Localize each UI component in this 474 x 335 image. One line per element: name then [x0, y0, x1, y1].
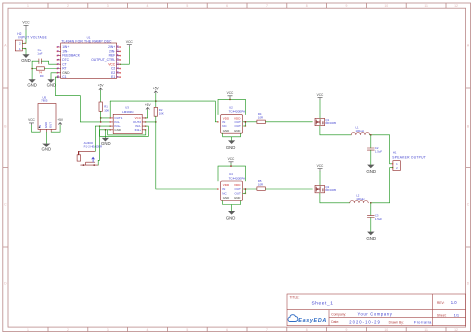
wire loop gnd to IN2+	[108, 130, 146, 135]
VCC flag (Q1)	[317, 93, 324, 100]
wire OUT1 riser to top rail	[109, 101, 111, 118]
wire junction down to C2	[370, 135, 372, 148]
svg-text:11: 11	[424, 328, 428, 332]
wire U3 gnd stem	[104, 130, 106, 138]
transistor Q1 IRF3205	[315, 118, 337, 126]
svg-text:VCC: VCC	[228, 157, 235, 161]
svg-text:Company:: Company:	[331, 313, 346, 317]
svg-text:16: 16	[116, 45, 120, 48]
svg-text:6: 6	[226, 328, 228, 332]
ground (U4)	[226, 211, 236, 220]
VCC flag (input)	[22, 21, 30, 30]
svg-text:IN2+: IN2+	[135, 128, 142, 132]
svg-text:1: 1	[27, 328, 29, 332]
svg-text:VCC: VCC	[126, 40, 134, 44]
svg-text:EasyEDA: EasyEDA	[298, 318, 326, 324]
svg-text:GND: GND	[366, 169, 376, 174]
wire rail to resistor	[32, 68, 36, 70]
+5V flag (U5 out)	[57, 118, 64, 125]
wire R1 to OUT1	[101, 117, 111, 119]
junction +5V stem crossing	[155, 100, 157, 102]
svg-text:12: 12	[116, 62, 120, 65]
wire H1 pin2 down to L2 output	[371, 168, 393, 203]
svg-text:IRF3205: IRF3205	[325, 188, 336, 192]
svg-text:GND: GND	[223, 129, 229, 133]
transistor Q2 IRF3205	[315, 185, 337, 193]
wire loop IN1+ to IN2-	[100, 126, 149, 136]
svg-text:12: 12	[454, 328, 458, 332]
svg-text:1.5uF: 1.5uF	[375, 217, 382, 221]
wire IN1+ from audio	[95, 125, 110, 127]
wire U4 OUT pins to R5	[243, 189, 257, 193]
ground (C2)	[366, 165, 376, 175]
svg-text:+5V: +5V	[57, 118, 64, 122]
svg-text:+5V: +5V	[153, 86, 160, 90]
svg-text:Sheet_1: Sheet_1	[312, 301, 334, 307]
wire OUT2 to descender	[145, 121, 155, 123]
svg-text:10R: 10R	[258, 183, 263, 187]
VCC flag (TL494)	[126, 40, 134, 47]
title block	[287, 294, 466, 326]
svg-text:GND: GND	[44, 122, 48, 128]
frame ticks bottom	[48, 327, 446, 332]
wire signal top rail to U2 IN	[110, 101, 218, 122]
capacitor C2 1.5uF	[367, 146, 382, 154]
svg-text:GND: GND	[114, 128, 122, 132]
gate driver U2 TC4420EPA (upper)	[217, 105, 246, 133]
capacitor C3 1.5uF	[367, 213, 382, 221]
wire R1 bottom down to IN1- wire	[100, 111, 102, 122]
junction IN1+ loop	[99, 125, 100, 126]
wire +5V down to R2	[155, 93, 157, 107]
svg-text:R0: R0	[40, 74, 44, 78]
svg-text:VCC: VCC	[28, 118, 35, 122]
wire C3 to ground	[370, 218, 372, 232]
svg-text:Your Company: Your Company	[358, 312, 393, 317]
svg-text:1.0: 1.0	[451, 300, 457, 305]
svg-text:TC4420EPA: TC4420EPA	[229, 110, 245, 114]
svg-text:GND: GND	[62, 71, 70, 75]
svg-text:U3: U3	[125, 106, 129, 110]
svg-text:Fiorialia: Fiorialia	[414, 320, 432, 325]
wire U5 GND to ground	[45, 132, 47, 143]
svg-text:VCC: VCC	[227, 91, 234, 95]
ground (C3)	[366, 232, 376, 242]
inductor L1 100uH	[351, 126, 369, 135]
wire +5V to U3 VCC pin	[145, 110, 147, 118]
svg-text:3: 3	[107, 328, 109, 332]
wire +5V to U5 OUT	[51, 125, 60, 132]
resistor R5 10R	[257, 179, 266, 190]
wire VCC to H2 pin2	[22, 30, 26, 43]
svg-text:14: 14	[116, 53, 120, 56]
svg-text:4: 4	[147, 328, 149, 332]
wire U2 gnd pins to ground	[223, 133, 241, 140]
svg-text:8: 8	[306, 328, 308, 332]
svg-text:GND: GND	[101, 141, 111, 146]
svg-text:9: 9	[346, 328, 348, 332]
svg-text:Date:: Date:	[331, 320, 339, 324]
+5V flag (R2)	[153, 86, 160, 93]
svg-text:GND: GND	[47, 83, 57, 88]
junction L1/C2	[370, 134, 372, 136]
wire C2 to ground	[370, 150, 372, 165]
svg-text:LM393N: LM393N	[122, 110, 133, 114]
junction R1/IN1-	[100, 121, 102, 123]
svg-text:4: 4	[147, 4, 149, 8]
svg-text:6: 6	[226, 4, 228, 8]
right pin stubs	[117, 47, 121, 77]
svg-text:TC4420EPA: TC4420EPA	[229, 176, 245, 180]
VCC flag (U4)	[228, 157, 235, 164]
svg-text:10K: 10K	[104, 108, 109, 112]
svg-text:10: 10	[116, 70, 120, 73]
svg-text:9: 9	[346, 4, 348, 8]
+5V flag (R1)	[98, 84, 105, 91]
svg-text:GND: GND	[226, 215, 236, 220]
svg-text:16: 16	[56, 75, 60, 78]
VCC flag (U2)	[227, 91, 234, 98]
inductor L2 100uH	[350, 194, 368, 203]
junction R2/OUT2	[155, 121, 157, 123]
wire VCC to Q1 drain	[320, 100, 351, 135]
left pin stubs	[57, 47, 60, 77]
EasyEDA logo	[288, 315, 298, 322]
svg-text:GND: GND	[21, 58, 31, 63]
svg-text:GND: GND	[366, 236, 376, 241]
svg-text:VCC: VCC	[317, 164, 324, 168]
svg-text:VCC: VCC	[22, 21, 30, 25]
comparator U3 LM393N	[110, 106, 147, 134]
junction R1/OUT1	[100, 117, 102, 119]
wire VCC to U4 VDD pins	[218, 164, 246, 182]
audio jack header	[77, 141, 102, 166]
svg-text:7805: 7805	[41, 99, 48, 103]
svg-text:C1: C1	[62, 75, 66, 79]
ground (U5)	[42, 144, 52, 152]
ground (U2)	[226, 140, 236, 150]
svg-text:GND: GND	[223, 196, 229, 200]
svg-text:7: 7	[266, 4, 268, 8]
svg-text:VCC: VCC	[317, 93, 324, 97]
svg-text:OUT: OUT	[235, 124, 242, 128]
wire VCC to U5 IN	[32, 125, 41, 132]
ground (under H2)	[21, 54, 31, 63]
wire R4 to Q1 gate	[265, 121, 312, 123]
svg-text:VCC: VCC	[135, 116, 142, 120]
wire VCC to U2 VDD pins	[218, 98, 246, 115]
svg-text:11: 11	[116, 66, 120, 69]
junction U3 gnd	[105, 129, 107, 131]
ground (U3)	[101, 138, 111, 146]
svg-text:H1: H1	[393, 151, 397, 155]
ground (under rail)	[27, 79, 37, 87]
svg-text:2: 2	[67, 4, 69, 8]
wire +5V to R1	[100, 91, 102, 103]
capacitor C+ 1uF	[37, 48, 42, 64]
wire R5 to Q2 gate	[265, 188, 312, 190]
wire TL494 C1 pin to LM393 IN1-	[55, 77, 110, 122]
right pin stubs	[142, 118, 145, 130]
svg-text:11: 11	[424, 4, 428, 8]
wire audio tip to IN1+	[94, 126, 96, 151]
resistor R4 10R	[257, 112, 266, 124]
svg-text:+5V: +5V	[98, 84, 105, 88]
svg-text:13: 13	[116, 58, 120, 61]
svg-text:10K: 10K	[159, 112, 164, 116]
connector H2 INPUT VOLTAGE	[15, 32, 47, 51]
svg-text:15: 15	[116, 49, 120, 52]
resistor T4 R0	[36, 67, 44, 78]
svg-text:5: 5	[186, 328, 188, 332]
svg-text:E1: E1	[111, 75, 115, 79]
svg-text:GND: GND	[234, 129, 240, 133]
VCC flag (U5 in)	[28, 118, 35, 125]
svg-text:7: 7	[266, 328, 268, 332]
svg-text:INPUT VOLTAGE: INPUT VOLTAGE	[18, 36, 47, 40]
wire VCC to Q2 drain	[320, 171, 350, 203]
wire U2 OUT pins to R4	[243, 122, 257, 126]
wire descender OUT2 to U4 IN	[156, 122, 218, 189]
svg-text:REV:: REV:	[437, 301, 445, 305]
ground (under TL494)	[47, 79, 57, 87]
svg-text:8: 8	[306, 4, 308, 8]
wire H2 pin1 to ground	[22, 49, 26, 55]
frame ticks right	[466, 88, 471, 247]
svg-text:10: 10	[384, 328, 388, 332]
wire audio sleeve to gnd row	[98, 130, 99, 165]
wire TL494 GND pin to ground	[51, 73, 57, 79]
svg-text:10R: 10R	[258, 115, 263, 119]
svg-text:SPEAKER OUTPUT: SPEAKER OUTPUT	[392, 155, 426, 159]
regulator U5 7805	[38, 96, 56, 133]
wire cap right to CT pin	[41, 61, 57, 64]
svg-text:12: 12	[454, 4, 458, 8]
wire VCC flag to TL494 VCC pin	[120, 47, 129, 64]
svg-text:+5V: +5V	[145, 103, 152, 107]
svg-text:5: 5	[186, 4, 188, 8]
svg-text:1/1: 1/1	[454, 313, 460, 318]
wire R2 bottom to OUT2	[155, 116, 157, 122]
header H1 SPEAKER OUTPUT	[392, 151, 426, 171]
svg-text:GND: GND	[42, 146, 52, 151]
junction L2/C3	[370, 202, 372, 204]
svg-text:10: 10	[384, 4, 388, 8]
gate driver U4 TC4420EPA (lower)	[217, 172, 246, 200]
svg-text:IRF3205: IRF3205	[325, 121, 336, 125]
op-amp/PWM U1 TL494	[56, 36, 121, 80]
svg-text:OUT: OUT	[48, 122, 52, 128]
svg-text:1: 1	[27, 4, 29, 8]
svg-text:1.5uF: 1.5uF	[375, 150, 382, 154]
pin numbers	[56, 45, 120, 79]
junction	[31, 68, 33, 70]
gnd rail vertical	[31, 61, 33, 79]
wire L1 to H1 pin1	[370, 135, 393, 164]
svg-text:OUT: OUT	[235, 192, 242, 196]
+5V flag (U3 VCC)	[145, 103, 152, 110]
wire cap left to gnd rail	[32, 60, 39, 62]
svg-text:3: 3	[107, 4, 109, 8]
frame ticks left	[3, 88, 8, 247]
svg-text:Sheet:: Sheet:	[437, 313, 447, 317]
left pin stubs	[110, 118, 113, 130]
svg-text:GND: GND	[226, 145, 236, 150]
svg-text:VCC: VCC	[108, 62, 116, 66]
wire U4 gnd pins to ground	[223, 201, 241, 212]
resistor R2 10K	[154, 107, 164, 116]
VCC flag (Q2)	[317, 164, 324, 171]
resistor R1 10K	[99, 102, 109, 112]
svg-text:2020-10-29: 2020-10-29	[349, 319, 380, 324]
wire junction down to C3	[370, 203, 372, 216]
svg-text:TITLE:: TITLE:	[290, 296, 300, 300]
svg-text:1uF: 1uF	[37, 52, 42, 56]
wire resistor to RT pin	[44, 68, 57, 70]
svg-text:GND: GND	[234, 196, 240, 200]
svg-text:Drawn By:: Drawn By:	[389, 321, 404, 325]
svg-text:2: 2	[67, 328, 69, 332]
wire GND pin row	[100, 129, 111, 131]
svg-text:GND: GND	[27, 83, 37, 88]
